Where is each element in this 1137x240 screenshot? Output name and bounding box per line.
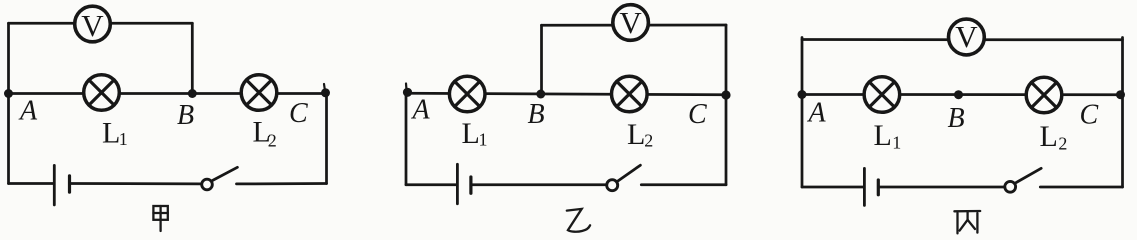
svg-text:A: A bbox=[807, 98, 827, 129]
wire top horizontal to voltmeter branch bbox=[9, 22, 193, 25]
label 乙 bbox=[567, 209, 590, 232]
node C bbox=[1116, 90, 1125, 99]
svg-text:L: L bbox=[102, 116, 120, 149]
svg-text:1: 1 bbox=[119, 129, 128, 149]
lamp L2 bbox=[241, 75, 277, 111]
svg-text:2: 2 bbox=[644, 130, 653, 150]
wire top horizontal B to C bbox=[542, 24, 727, 27]
wire right vertical down through C bbox=[725, 25, 728, 185]
svg-text:C: C bbox=[1080, 100, 1099, 131]
svg-text:V: V bbox=[955, 19, 978, 54]
lamp L1 bbox=[84, 75, 120, 111]
svg-text:L: L bbox=[462, 117, 480, 150]
wire battery to switch bbox=[471, 183, 607, 186]
svg-text:B: B bbox=[528, 99, 545, 130]
wire left vertical from A down bbox=[405, 93, 408, 185]
svg-text:C: C bbox=[688, 99, 707, 130]
wire vertical down to node B bbox=[191, 23, 194, 93]
wire bottom left to battery bbox=[9, 182, 54, 185]
battery B3 bbox=[864, 168, 878, 205]
wire right vertical bbox=[1121, 38, 1124, 188]
wire battery to switch bbox=[878, 186, 1005, 189]
lamp L2 bbox=[1026, 77, 1062, 113]
wire top horizontal bbox=[802, 38, 1123, 41]
wire vertical B up bbox=[540, 25, 543, 94]
voltmeter V2 bbox=[613, 5, 649, 41]
wire switch to right corner bbox=[237, 182, 327, 185]
wire battery to switch bbox=[70, 182, 202, 185]
svg-text:V: V bbox=[619, 5, 642, 40]
node B bbox=[536, 90, 545, 99]
svg-text:1: 1 bbox=[479, 130, 488, 150]
wire left vertical bbox=[801, 38, 804, 188]
svg-text:1: 1 bbox=[892, 132, 901, 152]
wire bottom left to battery bbox=[802, 186, 863, 189]
node B bbox=[954, 90, 963, 99]
lamp L1 bbox=[864, 77, 900, 113]
lamp L1 bbox=[449, 76, 485, 112]
svg-text:A: A bbox=[411, 95, 431, 126]
svg-text:A: A bbox=[18, 95, 38, 126]
svg-text:L: L bbox=[1040, 120, 1058, 153]
node A bbox=[4, 89, 13, 98]
wire main horizontal A-B-C bbox=[406, 93, 726, 95]
switch S1 bbox=[202, 167, 238, 190]
node A bbox=[798, 90, 807, 99]
wire left vertical A-side bbox=[7, 23, 10, 183]
wire bottom left to battery bbox=[406, 183, 456, 186]
svg-text:C: C bbox=[289, 98, 308, 129]
battery B1 bbox=[54, 165, 69, 205]
lamp L2 bbox=[612, 76, 648, 112]
wire switch to right corner bbox=[1040, 186, 1122, 189]
label 甲 bbox=[153, 206, 167, 231]
svg-text:2: 2 bbox=[1058, 134, 1067, 154]
switch S2 bbox=[607, 165, 641, 191]
svg-text:L: L bbox=[874, 119, 892, 152]
wire main horizontal A-B-C bbox=[9, 92, 327, 95]
svg-text:B: B bbox=[177, 100, 194, 131]
node B bbox=[188, 89, 197, 98]
svg-text:B: B bbox=[948, 103, 965, 134]
svg-text:L: L bbox=[627, 118, 645, 151]
label 丙 bbox=[954, 211, 980, 233]
switch S3 bbox=[1005, 168, 1041, 192]
svg-text:V: V bbox=[81, 8, 104, 43]
wire switch to right corner bbox=[641, 183, 726, 186]
voltmeter V3 bbox=[949, 19, 985, 55]
wire main horizontal A-B-C bbox=[802, 93, 1123, 96]
node A bbox=[403, 84, 412, 97]
voltmeter V1 bbox=[75, 6, 111, 43]
battery B2 bbox=[457, 164, 471, 203]
node C bbox=[321, 84, 330, 97]
svg-text:2: 2 bbox=[268, 130, 277, 150]
node C bbox=[721, 90, 730, 99]
wire right vertical C down bbox=[325, 93, 328, 184]
